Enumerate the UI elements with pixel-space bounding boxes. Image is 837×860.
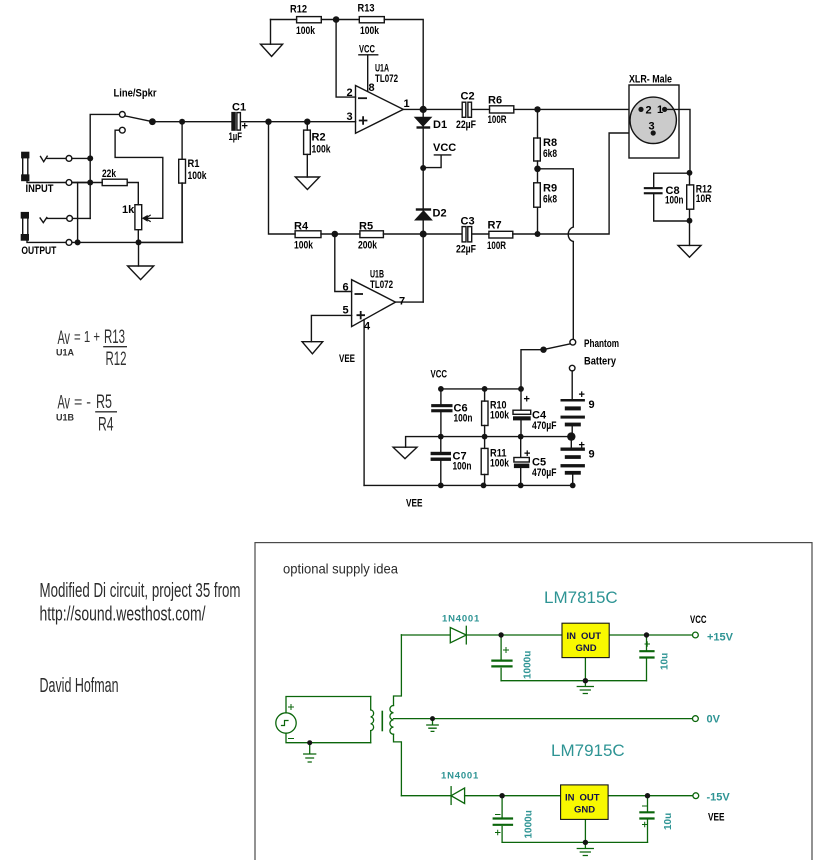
svg-text:1µF: 1µF [229,131,243,143]
svg-text:6k8: 6k8 [543,148,557,160]
svg-text:+: + [524,448,530,460]
svg-text:22µF: 22µF [456,244,476,256]
svg-text:1000u: 1000u [523,651,534,679]
svg-text:VEE: VEE [708,812,725,824]
svg-text:22µF: 22µF [456,119,476,131]
svg-text:OUT: OUT [581,631,601,642]
svg-text:D2: D2 [433,208,447,220]
svg-text:IN: IN [567,631,577,642]
svg-text:100k: 100k [490,458,510,470]
svg-text:XLR- Male: XLR- Male [629,74,672,86]
svg-text:GND: GND [576,643,597,654]
svg-text:2: 2 [347,87,353,99]
svg-text:3: 3 [649,121,655,133]
svg-text:LM7815C: LM7815C [544,588,618,607]
svg-text:TL072: TL072 [370,279,393,291]
svg-text:OUTPUT: OUTPUT [21,245,56,257]
svg-text:100n: 100n [454,413,473,425]
svg-text:GND: GND [574,805,595,816]
svg-text:VCC: VCC [690,614,707,626]
svg-text:470µF: 470µF [532,467,557,479]
svg-text:R5: R5 [96,392,112,413]
svg-text:David Hofman: David Hofman [40,675,119,697]
svg-text:6k8: 6k8 [543,194,557,206]
svg-text:100n: 100n [665,195,684,207]
svg-text:IN: IN [565,793,575,804]
svg-text:100k: 100k [490,410,510,422]
svg-text:Line/Spkr: Line/Spkr [114,88,158,100]
svg-text:1N4001: 1N4001 [441,771,479,782]
svg-text:1: 1 [404,98,410,110]
svg-text:TL072: TL072 [375,73,398,85]
svg-text:10u: 10u [663,813,674,830]
svg-text:R12: R12 [106,349,127,370]
svg-text:R4: R4 [98,415,114,436]
svg-text:OUT: OUT [580,793,600,804]
svg-text:100k: 100k [312,144,332,156]
svg-text:100k: 100k [188,170,208,182]
svg-text:= 1 +: = 1 + [74,329,100,346]
svg-text:6: 6 [343,282,349,294]
svg-text:R12: R12 [290,4,307,16]
svg-text:1k: 1k [122,204,135,216]
svg-text:C2: C2 [461,91,475,103]
svg-text:2: 2 [646,105,652,117]
svg-text:1: 1 [657,104,663,116]
svg-text:R5: R5 [359,221,373,233]
svg-text:VEE: VEE [406,498,423,510]
svg-text:R7: R7 [488,220,502,232]
svg-text:R13: R13 [104,327,125,348]
svg-text:Modified Di circuit, project 3: Modified Di circuit, project 35 from [40,580,241,602]
svg-text:+: + [524,394,530,406]
svg-text:R6: R6 [488,95,502,107]
svg-text:Av: Av [58,328,71,349]
svg-text:VCC: VCC [359,44,375,56]
svg-text:INPUT: INPUT [26,183,54,195]
svg-text:VCC: VCC [433,142,456,154]
svg-text:C3: C3 [461,216,475,228]
svg-text:7: 7 [399,296,405,308]
svg-text:http://sound.westhost.com/: http://sound.westhost.com/ [40,604,206,626]
svg-text:4: 4 [364,321,371,333]
svg-text:U1B: U1B [56,413,75,423]
svg-text:Av: Av [58,393,71,414]
svg-text:R4: R4 [294,221,309,233]
svg-text:100k: 100k [360,25,380,37]
svg-text:R2: R2 [312,132,326,144]
svg-text:10R: 10R [696,193,712,205]
svg-text:0V: 0V [707,714,721,726]
svg-text:100R: 100R [487,240,506,252]
svg-text:optional supply idea: optional supply idea [283,561,398,577]
svg-text:+15V: +15V [707,632,734,644]
svg-text:R13: R13 [358,3,375,15]
svg-text:VCC: VCC [431,369,448,381]
svg-text:-15V: -15V [707,792,731,804]
svg-text:Battery: Battery [584,356,617,368]
svg-text:100k: 100k [296,25,316,37]
svg-text:C1: C1 [232,102,246,114]
svg-text:10u: 10u [660,653,671,670]
svg-text:VEE: VEE [339,353,355,365]
svg-text:100R: 100R [488,114,507,126]
svg-text:9: 9 [589,449,595,461]
svg-text:200k: 200k [358,240,378,252]
svg-text:LM7915C: LM7915C [551,741,625,760]
svg-text:= -: = - [74,394,91,411]
svg-text:Phantom: Phantom [584,338,619,350]
svg-text:470µF: 470µF [532,420,557,432]
svg-text:1000u: 1000u [524,810,535,838]
svg-text:9: 9 [589,399,595,411]
svg-text:100n: 100n [453,461,472,473]
svg-text:D1: D1 [433,119,447,131]
svg-text:+: + [579,440,585,452]
svg-text:1N4001: 1N4001 [442,614,480,625]
svg-text:U1A: U1A [56,348,75,358]
svg-text:+: + [242,121,248,133]
svg-text:3: 3 [347,111,353,123]
svg-text:8: 8 [369,82,375,94]
svg-text:R1: R1 [188,158,200,170]
svg-text:22k: 22k [102,168,117,180]
svg-text:+: + [579,389,585,401]
svg-text:5: 5 [343,305,349,317]
svg-text:100k: 100k [294,240,314,252]
